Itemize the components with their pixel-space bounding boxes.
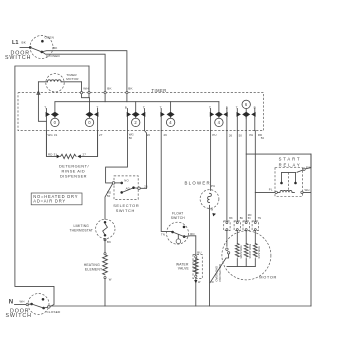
svg-text:WH: WH — [83, 87, 89, 91]
svg-text:PU: PU — [211, 184, 215, 188]
svg-text:TIMER: TIMER — [152, 88, 167, 93]
svg-text:26: 26 — [147, 133, 151, 137]
svg-text:L1: L1 — [12, 40, 18, 46]
svg-text:SWITCH: SWITCH — [5, 55, 31, 61]
svg-text:BK: BK — [107, 240, 111, 244]
svg-text:SWITCH: SWITCH — [171, 216, 186, 220]
svg-text:PROTECTOR: PROTECTOR — [218, 264, 222, 282]
svg-text:VALVE: VALVE — [178, 267, 190, 271]
svg-text:RUN WDG: RUN WDG — [258, 246, 261, 258]
svg-text:N: N — [9, 299, 13, 305]
svg-text:PA: PA — [249, 133, 253, 137]
svg-text:W: W — [198, 281, 201, 284]
svg-text:SWITCH: SWITCH — [116, 208, 135, 213]
svg-text:FLOAT: FLOAT — [172, 211, 183, 215]
svg-text:START WDG: START WDG — [249, 244, 252, 259]
svg-text:RD: RD — [190, 232, 194, 236]
svg-text:50: 50 — [129, 136, 133, 140]
svg-text:T: T — [143, 105, 145, 109]
svg-text:T: T — [160, 105, 162, 109]
svg-text:BK: BK — [22, 41, 27, 45]
svg-text:TN: TN — [258, 217, 262, 220]
svg-text:50: 50 — [107, 194, 111, 198]
svg-text:CLOSED: CLOSED — [47, 310, 61, 314]
svg-text:WH: WH — [305, 188, 310, 192]
svg-text:MOTOR: MOTOR — [259, 275, 277, 280]
svg-text:27: 27 — [83, 152, 87, 156]
svg-text:ELEMENT: ELEMENT — [85, 267, 102, 271]
svg-text:T: T — [44, 105, 46, 109]
svg-text:START: START — [279, 157, 302, 162]
svg-text:B: B — [226, 105, 228, 109]
svg-text:NO: NO — [124, 178, 129, 182]
svg-text:26: 26 — [229, 134, 233, 138]
svg-text:26: 26 — [144, 184, 148, 188]
svg-text:BK: BK — [107, 87, 112, 91]
svg-text:53: 53 — [261, 136, 265, 140]
svg-text:MAIN WDG: MAIN WDG — [240, 245, 243, 258]
svg-text:OPEN: OPEN — [45, 36, 55, 40]
svg-text:RELAY: RELAY — [279, 162, 302, 167]
svg-text:T: T — [96, 105, 98, 109]
svg-text:29: 29 — [164, 133, 168, 137]
svg-text:DISPENSER: DISPENSER — [60, 173, 87, 178]
svg-text:T: T — [209, 105, 211, 109]
svg-text:TN: TN — [161, 232, 165, 236]
svg-text:THERMOSTAT: THERMOSTAT — [70, 229, 93, 233]
svg-text:BLOWER: BLOWER — [185, 180, 211, 185]
svg-text:PL: PL — [269, 188, 273, 192]
svg-text:W: W — [211, 208, 214, 212]
svg-text:BK: BK — [128, 87, 133, 91]
svg-text:LIMITING: LIMITING — [74, 224, 90, 228]
svg-text:PU: PU — [212, 133, 216, 137]
svg-text:W: W — [109, 277, 112, 281]
svg-text:50: 50 — [239, 134, 243, 138]
svg-text:BK: BK — [53, 46, 58, 50]
svg-text:PW: PW — [306, 165, 311, 169]
svg-text:BK: BK — [229, 217, 233, 220]
svg-text:SWITCH: SWITCH — [6, 313, 32, 319]
svg-text:B: B — [254, 105, 256, 109]
svg-text:BU: BU — [197, 250, 201, 254]
svg-text:WG 31: WG 31 — [48, 133, 58, 137]
svg-text:AD=AIR DRY: AD=AIR DRY — [33, 199, 66, 204]
svg-text:T: T — [236, 105, 238, 109]
svg-text:B: B — [125, 105, 127, 109]
svg-text:MOTOR: MOTOR — [66, 77, 79, 81]
svg-text:RD 31: RD 31 — [48, 152, 57, 156]
svg-text:WH: WH — [20, 300, 25, 304]
svg-text:BU: BU — [240, 217, 244, 220]
svg-text:27: 27 — [99, 133, 103, 137]
